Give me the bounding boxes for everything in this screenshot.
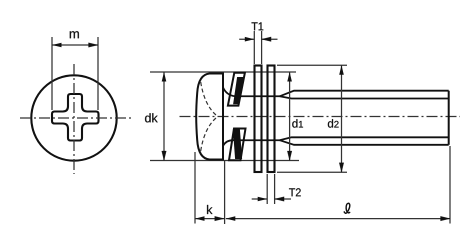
neck fillet and shank bottom line with thread root bbox=[223, 137, 449, 146]
dimension k line bbox=[195, 218, 224, 220]
label k bbox=[207, 205, 212, 214]
dimension dk line bbox=[163, 72, 165, 161]
side view axis centerline bbox=[180, 116, 461, 118]
dimension m arrows bbox=[52, 43, 62, 48]
thread major bottom line bbox=[280, 140, 449, 145]
dk/d1 shared extension line bottom bbox=[150, 160, 299, 162]
dimension m extension lines bbox=[52, 37, 98, 110]
label T1 bbox=[252, 22, 264, 30]
spring washer upper section outline bbox=[228, 73, 245, 106]
circle horizontal centerline bbox=[20, 117, 132, 119]
flat washer 1 bbox=[255, 66, 262, 173]
recess hidden dashed arcs bbox=[201, 82, 218, 151]
label d1 bbox=[292, 119, 303, 127]
dimension k arrowheads bbox=[195, 216, 205, 221]
spring washer lower section outline bbox=[229, 129, 246, 161]
dimension d2 line bbox=[341, 65, 343, 172]
circle vertical centerline bbox=[73, 64, 75, 174]
dimension dk arrows bbox=[162, 72, 167, 82]
dimension k extension line left bbox=[194, 152, 196, 224]
dimension d2 extension lines bbox=[277, 65, 347, 172]
label T2 bbox=[289, 188, 301, 196]
dk/d1 shared extension line top bbox=[150, 71, 296, 73]
dimension k extension line right bbox=[224, 161, 226, 225]
label dk bbox=[145, 113, 158, 122]
label m bbox=[70, 31, 79, 38]
pan head outline bbox=[196, 74, 223, 160]
label d2 bbox=[328, 119, 339, 127]
dimension d1 arrows bbox=[287, 72, 292, 82]
dimension l line bbox=[226, 218, 450, 220]
dimension T1 extension lines bbox=[254, 31, 261, 64]
dimension l arrowheads bbox=[226, 216, 236, 221]
spring washer lower section fill bbox=[233, 129, 242, 159]
head top view circle bbox=[31, 75, 116, 160]
dimension T1 arrowheads bbox=[245, 37, 255, 42]
thread major top line bbox=[280, 91, 449, 97]
label l (script ell) bbox=[344, 203, 350, 213]
dimension l extension line right bbox=[449, 146, 451, 224]
dimension m line bbox=[52, 44, 98, 46]
screw end face bbox=[448, 91, 450, 145]
flat washer 2 bbox=[268, 66, 275, 173]
dimension T2 arrowheads bbox=[258, 197, 268, 202]
neck fillet and shank top line with thread root bbox=[223, 87, 449, 98]
dimension d1 line bbox=[289, 72, 291, 161]
dimension d2 arrows bbox=[339, 65, 344, 75]
spring washer upper section fill bbox=[233, 77, 244, 104]
dimension T2 extension lines bbox=[267, 174, 274, 204]
phillips recess cross bbox=[52, 94, 99, 141]
dimension T1 arrow lines bbox=[239, 38, 277, 40]
dimension T2 arrow lines bbox=[252, 198, 291, 200]
